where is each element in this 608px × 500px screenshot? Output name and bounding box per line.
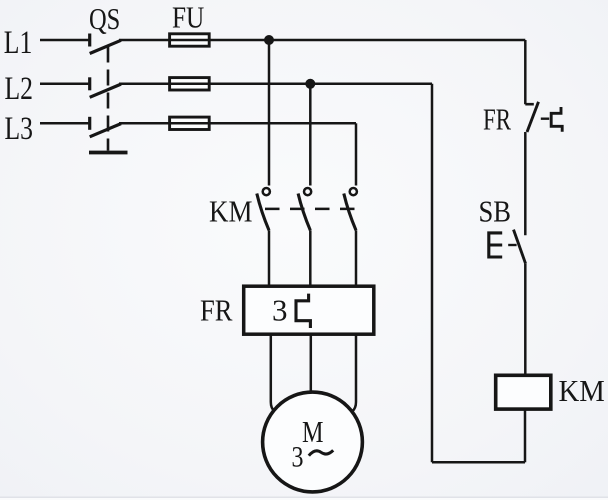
contactor KM pole 2 blade <box>298 194 310 231</box>
relay contact FR link dash <box>541 117 549 119</box>
contactor KM pole 3 blade <box>344 194 356 231</box>
junction dot node B <box>305 79 315 89</box>
switch QS pole 1 blade <box>90 40 121 53</box>
wire drop L2 to KM pole 2 <box>309 84 312 186</box>
wire L2 from QS to junction B <box>119 83 310 86</box>
relay contact FR fixed tick <box>525 103 534 106</box>
switch QS linkage bar <box>89 151 128 155</box>
svg-text:L3: L3 <box>5 111 34 147</box>
relay contact FR thermal element <box>551 107 562 132</box>
wire KM pole 2 to FR box <box>309 230 312 286</box>
fuse FU3 body <box>170 117 210 129</box>
switch QS pole 2 blade <box>90 84 121 97</box>
wire FR box to motor left <box>271 334 275 411</box>
svg-text:FR: FR <box>483 102 511 137</box>
svg-text:FR: FR <box>200 293 233 328</box>
contactor KM pole 1 blade <box>257 194 269 231</box>
wire return rise to L2 <box>431 84 434 463</box>
wire L1 from QS to junction A <box>119 39 269 42</box>
wire L3 from QS to corner <box>119 122 356 125</box>
motor M1 tilde <box>309 450 333 455</box>
svg-text:FU: FU <box>172 0 204 35</box>
motor M1 body <box>263 392 363 492</box>
wire SB to KM coil <box>524 264 527 376</box>
svg-text:L1: L1 <box>4 25 33 61</box>
contactor KM pole 2 arc <box>304 188 311 195</box>
button SB label <box>479 194 512 229</box>
wire KM coil to bottom <box>524 409 527 462</box>
button SB link dash <box>508 244 516 246</box>
button SB actuator <box>489 233 502 257</box>
svg-text:KM: KM <box>209 194 253 229</box>
wire FR contact to SB <box>524 132 527 235</box>
svg-text:L2: L2 <box>5 71 34 107</box>
relay FR heater box <box>244 286 374 334</box>
svg-text:3: 3 <box>292 441 304 474</box>
wire KM pole 1 to FR box <box>268 230 271 286</box>
wire KM pole 3 to FR box <box>355 230 358 286</box>
wire L2 from label to QS <box>40 83 88 86</box>
junction dot node A <box>264 35 274 45</box>
fuse FU2 body <box>170 78 210 90</box>
switch QS linkage dashed line <box>107 47 110 151</box>
wire bottom return <box>432 461 525 464</box>
button SB blade <box>514 230 526 264</box>
relay contact FR blade <box>527 102 539 132</box>
fuse FU label <box>172 0 204 35</box>
fuse FU1 wire through <box>170 39 210 42</box>
wire FR box to motor middle <box>310 334 313 393</box>
fuse FU1 body <box>170 34 210 46</box>
switch QS pole 3 blade <box>90 124 121 137</box>
contactor KM label <box>209 194 253 229</box>
node L2 label <box>5 71 34 107</box>
switch QS pole 2 contact tick <box>88 77 91 90</box>
svg-text:SB: SB <box>479 194 512 229</box>
wire control branch down from L1 <box>524 40 527 104</box>
fuse FU2 wire through <box>170 83 210 86</box>
switch QS label <box>89 1 120 36</box>
wire L3 from label to QS <box>40 122 88 125</box>
motor M1 letter M <box>302 414 324 449</box>
coil KM label <box>559 373 605 408</box>
contactor KM pole 1 arc <box>263 188 270 195</box>
wire L1 junction to control branch corner <box>269 39 525 42</box>
coil KM body <box>496 375 551 409</box>
node L1 label <box>4 25 33 61</box>
switch QS pole 3 contact tick <box>88 117 91 130</box>
contactor KM pole 3 arc <box>350 188 357 195</box>
svg-text:M: M <box>302 414 324 449</box>
motor M1 label 3 <box>292 441 304 474</box>
switch QS pole 1 contact tick <box>88 34 91 47</box>
wire L1 from label to QS <box>40 39 88 42</box>
relay FR heater element <box>296 294 310 328</box>
relay FR label <box>200 293 233 328</box>
relay FR quantity 3 <box>272 292 288 327</box>
wire drop L1 to KM pole 1 <box>268 40 271 186</box>
svg-text:3: 3 <box>272 292 288 327</box>
svg-text:KM: KM <box>559 373 605 408</box>
node L3 label <box>5 111 34 147</box>
wire drop L3 to KM pole 3 <box>355 123 358 185</box>
relay contact FR label <box>483 102 511 137</box>
fuse FU3 wire through <box>170 122 210 125</box>
wire FR box to motor right <box>352 334 356 411</box>
wire L2 junction to control return corner <box>310 83 432 86</box>
contactor KM linkage dashed line <box>265 208 356 211</box>
svg-text:QS: QS <box>89 1 120 36</box>
